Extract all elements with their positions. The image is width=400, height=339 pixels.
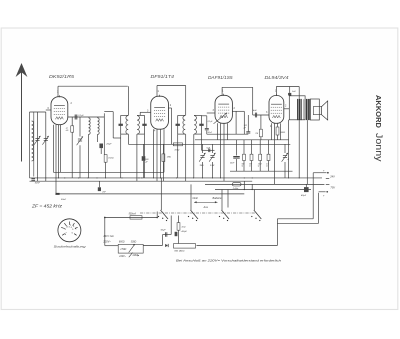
svg-text:300Ω: 300Ω (131, 241, 137, 243)
svg-text:DF91/1T4: DF91/1T4 (151, 74, 175, 79)
svg-text:0,1µF: 0,1µF (208, 121, 214, 123)
svg-text:DL94/3V4: DL94/3V4 (265, 75, 290, 80)
svg-text:75V: 75V (330, 186, 335, 190)
svg-text:Sockelschaltung: Sockelschaltung (54, 244, 87, 248)
svg-text:50nF: 50nF (35, 183, 41, 185)
svg-text:0,1µF: 0,1µF (78, 115, 84, 117)
svg-text:170Ω: 170Ω (120, 248, 126, 251)
svg-text:4nF: 4nF (253, 109, 257, 112)
svg-text:B61 (B41): B61 (B41) (175, 249, 185, 252)
svg-text:DK92/1R5: DK92/1R5 (49, 74, 75, 79)
svg-text:25nF: 25nF (229, 163, 235, 165)
svg-text:AKKORD: AKKORD (374, 95, 381, 128)
svg-text:1MΩ: 1MΩ (167, 157, 172, 159)
svg-text:1M: 1M (255, 133, 258, 135)
svg-text:Aus: Aus (203, 205, 209, 209)
svg-text:Netz: Netz (193, 196, 199, 200)
svg-text:14V= bei: 14V= bei (103, 234, 114, 238)
svg-text:2nF: 2nF (101, 192, 106, 194)
svg-text:Bei Anschluß an 220V= Vorschal: Bei Anschluß an 220V= Vorschaltwiderstan… (176, 258, 281, 262)
svg-text:680Ω: 680Ω (280, 132, 285, 134)
svg-text:+50µF: +50µF (181, 231, 188, 233)
svg-text:5nF: 5nF (292, 91, 296, 93)
svg-text:40µF: 40µF (301, 194, 307, 197)
svg-text:1MΩ: 1MΩ (200, 165, 205, 167)
svg-text:15kΩ: 15kΩ (108, 158, 114, 160)
svg-text:24V: 24V (329, 174, 335, 178)
svg-text:50µF: 50µF (161, 229, 167, 231)
svg-text:DAF91/1S5: DAF91/1S5 (208, 75, 233, 80)
svg-text:ZF = 452 kHz: ZF = 452 kHz (31, 204, 63, 209)
svg-text:25µF: 25µF (105, 143, 112, 145)
svg-text:680Ω: 680Ω (119, 241, 125, 243)
svg-text:220V~: 220V~ (102, 239, 111, 243)
svg-text:47kΩ: 47kΩ (175, 149, 180, 152)
svg-text:Batterie: Batterie (213, 196, 222, 200)
svg-text:110V~: 110V~ (132, 255, 139, 257)
svg-text:1kΩ: 1kΩ (181, 226, 185, 228)
svg-text:Jonny: Jonny (374, 133, 384, 162)
svg-text:2×Bat.: 2×Bat. (232, 187, 239, 190)
svg-text:50nF: 50nF (61, 199, 67, 201)
svg-text:500mA: 500mA (129, 213, 137, 216)
svg-text:220V~: 220V~ (118, 256, 126, 258)
